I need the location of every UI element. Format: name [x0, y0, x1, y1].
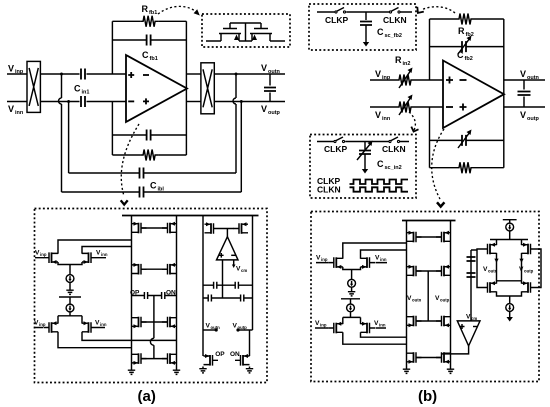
- wire left PMOS top riser: [496, 240, 498, 246]
- svg-text:fb1: fb1: [150, 56, 158, 62]
- wire output Voutn: [504, 79, 545, 81]
- wire chopper to Cin1 top: [41, 73, 80, 75]
- op-amp A1 plus top: [128, 72, 134, 78]
- capacitor Ccm4: [241, 295, 244, 302]
- svg-text:fb1: fb1: [149, 10, 157, 16]
- svg-text:outn: outn: [527, 75, 540, 81]
- resistor Rfb2: [456, 14, 474, 25]
- wire feedback box left vertical lower: [111, 102, 113, 156]
- svg-text:CLKN: CLKN: [383, 15, 407, 25]
- wire caps line2: [203, 297, 253, 299]
- pseudo-resistor transistor M2: [250, 23, 272, 41]
- svg-text:(b): (b): [418, 388, 437, 405]
- arrowhead into in2 box: [411, 127, 418, 132]
- transistor M6a col-right row1: [162, 222, 177, 234]
- transistor M14a right-sec right PMOS: [234, 222, 249, 234]
- wire I4b to ground: [509, 311, 511, 314]
- transistor M5b col-left row1: [407, 231, 422, 243]
- pseudo-resistor gate link: [230, 23, 261, 41]
- op-amp A1: [126, 55, 187, 122]
- svg-text:(a): (a): [138, 388, 156, 405]
- transistor M7b col-left row2: [407, 265, 422, 277]
- op-amp Vcm a (points up): [217, 237, 239, 260]
- wire right section left vertical: [202, 216, 204, 357]
- transistor M14b buffer PMOS right: [522, 243, 537, 255]
- wire row4 gate link: [141, 358, 168, 360]
- dotted curve opamp to bottom box a: [121, 124, 139, 196]
- svg-text:outn: outn: [488, 269, 498, 274]
- wire cap to ground: [365, 25, 367, 39]
- svg-text:V: V: [375, 69, 381, 79]
- Vcm b plus: [460, 324, 465, 329]
- wire pair2 right drain to column: [82, 332, 177, 341]
- wire pair2 left drain to column: [58, 332, 132, 348]
- capacitor Ccm1: [214, 282, 217, 289]
- wire output Voutp: [504, 106, 545, 108]
- svg-text:outn: outn: [412, 298, 422, 303]
- svg-text:V: V: [8, 104, 14, 114]
- wire opamp output to chopper top: [186, 73, 200, 75]
- wire chopper2 to Voutn: [215, 73, 286, 75]
- pseudo-resistor bottom wire: [206, 40, 285, 42]
- ground column right: [173, 368, 180, 374]
- current source I3b: [506, 223, 514, 231]
- wire lower fb varcap branch: [430, 139, 504, 141]
- wire pair2 right drain to column b: [361, 332, 407, 337]
- arrowhead into box b: [437, 202, 444, 206]
- current source I1b: [348, 279, 356, 287]
- transistor M8b col-right row2: [436, 265, 451, 277]
- wire pair1 left drain to column b: [343, 243, 407, 259]
- wire chopper to Cin1 bottom: [41, 101, 80, 103]
- ground column left b: [403, 367, 410, 373]
- svg-text:sc_fb2: sc_fb2: [385, 33, 402, 39]
- wire pair1 tail: [58, 262, 82, 275]
- wire top feedback capacitor branch: [112, 39, 186, 41]
- op-amp A2 minus bottom: [446, 106, 453, 108]
- transistor M10b col-right row3: [436, 316, 451, 328]
- wire right PMOS top riser: [521, 240, 523, 246]
- svg-text:outp: outp: [527, 116, 540, 122]
- transistor M10a col-right row3: [162, 317, 177, 329]
- transistor M1a diff pair1 left: [44, 252, 59, 264]
- svg-text:fb2: fb2: [465, 56, 473, 62]
- op-amp A2 minus top: [460, 79, 467, 81]
- wire bias bar b: [341, 299, 360, 304]
- transistor M15b buffer NMOS left: [482, 281, 497, 293]
- svg-text:outp: outp: [440, 298, 450, 303]
- wire lower fb resistor branch: [430, 167, 504, 169]
- wire I2a to pair2: [69, 312, 71, 316]
- transistor M5a col-left row1: [132, 222, 147, 234]
- wire row1 gate link: [141, 227, 168, 229]
- svg-text:C: C: [150, 181, 157, 191]
- wire feedback tap from bottom output: [240, 102, 242, 193]
- wire feedback box right vertical: [185, 21, 187, 155]
- dotted curve opamp b to bottom box b: [432, 129, 444, 199]
- op-amp A1 plus bottom: [143, 98, 149, 104]
- wire pair1 right drain to column: [82, 247, 132, 254]
- transistor M16a bottom NMOS right: [235, 354, 250, 366]
- wire pair1 tail b: [343, 267, 361, 280]
- ground column right b: [447, 367, 454, 373]
- wire pair2 source bar: [58, 316, 82, 324]
- wire gate leads pair2 b: [315, 327, 386, 329]
- svg-text:R: R: [458, 26, 465, 36]
- arrowhead into fb box: [417, 7, 424, 13]
- chopper CH1: [27, 61, 40, 112]
- ground bottom NMOS right: [246, 367, 253, 373]
- op-amp A1 minus top: [143, 74, 149, 76]
- wire buffer bottom join: [497, 291, 522, 303]
- svg-text:V: V: [520, 110, 526, 120]
- wire I3b down: [509, 231, 511, 240]
- wire I1a to ground: [69, 282, 71, 288]
- wire pair2 source bar b: [343, 317, 361, 324]
- wire lower feedback resistor branch: [112, 154, 186, 156]
- capacitor load CL2: [518, 92, 531, 96]
- wire column right vertical b: [450, 221, 452, 368]
- transistor M7a col-left row2: [132, 263, 147, 275]
- wire Vcm b output: [442, 346, 469, 354]
- svg-text:V: V: [375, 110, 381, 120]
- wire I2b to pair2 b: [350, 312, 352, 318]
- transistor M3a diff pair2 left: [44, 321, 59, 333]
- ground bottom NMOS left: [199, 367, 206, 373]
- wire bias bar: [59, 297, 81, 304]
- op-amp A2 plus bottom: [460, 104, 467, 111]
- dotted arrow Vinn to Csc_in2 box: [409, 112, 415, 130]
- wire lower feedback capacitor branch: [112, 134, 186, 136]
- wire I1b to ground: [351, 287, 353, 289]
- transistor M8a col-right row2: [162, 263, 177, 275]
- capacitor Cfb1b: [147, 130, 151, 141]
- wire feedback tap from top output with hop: [233, 74, 236, 173]
- wire Vinp to opamp: [370, 79, 443, 81]
- wire caps line1: [203, 284, 253, 286]
- waveform CLKN: [350, 187, 409, 191]
- ground I1b: [348, 290, 355, 296]
- svg-text:V: V: [520, 69, 526, 79]
- pseudo-resistor M2 arrow: [252, 35, 257, 41]
- transistor M4b diff pair2 right: [361, 322, 376, 334]
- capacitor Cfb1: [147, 35, 151, 46]
- wire Cin1 to opamp bottom: [87, 101, 127, 103]
- svg-text:inn: inn: [15, 110, 24, 116]
- capacitor Ccmfb1: [144, 292, 147, 299]
- wire Vcm sense stub: [222, 260, 224, 298]
- transistor M6b col-right row1: [436, 231, 451, 243]
- svg-text:V: V: [8, 64, 14, 74]
- arrow on Cfb2b: [458, 132, 470, 148]
- wire left output node riser: [496, 253, 498, 284]
- wire Vinn to chopper: [7, 101, 27, 103]
- wire fb2 box right vertical: [503, 19, 505, 168]
- switch CLKP in2: [334, 137, 345, 143]
- dashed border box a: [35, 209, 268, 383]
- arrowhead into box a: [121, 200, 128, 204]
- current source I1a: [66, 275, 74, 283]
- wire top feedback resistor branch: [112, 20, 186, 22]
- wire row3 gate link: [141, 321, 168, 323]
- svg-text:inp: inp: [40, 252, 47, 257]
- svg-text:V: V: [261, 104, 267, 114]
- wire row3 gate link b: [416, 320, 442, 322]
- svg-text:inn: inn: [382, 116, 391, 122]
- ground I1a: [66, 288, 73, 294]
- wire caps row: [132, 295, 177, 297]
- svg-text:C: C: [457, 50, 464, 60]
- pseudo-resistor transistor M1: [219, 23, 241, 41]
- arrow bias right: [519, 259, 523, 263]
- svg-text:OP: OP: [215, 351, 225, 358]
- wire Cibl inner line: [69, 172, 236, 174]
- capacitor load CL1: [264, 88, 276, 92]
- capacitor Ccm2: [235, 282, 238, 289]
- transistor M2a diff pair1 right: [82, 252, 97, 264]
- wire Vcm input arrow: [233, 260, 235, 265]
- ground column left: [128, 368, 135, 374]
- transistor M11a col-left row4: [132, 353, 147, 365]
- wire row2 gate link b: [416, 270, 442, 272]
- arrow on Cfb2: [458, 38, 470, 54]
- current source I2b: [347, 304, 355, 312]
- wire load cap vertical: [269, 74, 271, 102]
- wire Vinn to opamp: [370, 106, 443, 108]
- wire pair2 left drain to column b: [343, 332, 407, 344]
- wire buffer outer loop right: [536, 249, 541, 288]
- wire feedback tap from bottom input: [68, 102, 70, 174]
- resistor Rfb1b: [140, 150, 158, 161]
- chopper CH2: [201, 63, 214, 114]
- svg-text:ON: ON: [230, 351, 240, 358]
- variable resistor Rin2 bottom: [396, 102, 414, 113]
- wire gate lead Vinp: [35, 257, 106, 259]
- wire cap stem: [365, 12, 367, 20]
- wire fb2 box left vertical upper: [429, 19, 431, 80]
- capacitor Csense1: [467, 257, 476, 261]
- svg-text:CLKN: CLKN: [317, 185, 341, 195]
- wire pair1 left drain to column: [58, 240, 132, 254]
- ground arrow buffer: [507, 314, 513, 322]
- svg-text:C: C: [142, 50, 149, 60]
- capacitor Cibl inner: [140, 168, 144, 179]
- svg-text:R: R: [142, 4, 149, 14]
- wire gate leads pair1 b: [316, 262, 387, 264]
- dotted arrow Rfb2 to box: [421, 7, 455, 13]
- wire chopper2 to Voutp: [215, 101, 286, 103]
- svg-text:sc_in2: sc_in2: [385, 165, 402, 171]
- svg-text:inp: inp: [39, 322, 46, 327]
- wire right NMOS drain riser: [249, 330, 251, 356]
- svg-text:inn: inn: [101, 252, 108, 257]
- dotted arrow Rfb1 to pseudoresistor box: [158, 6, 198, 14]
- node junction bottom output: [240, 100, 243, 103]
- wire opamp output to chopper bottom: [186, 101, 200, 103]
- capacitor Ccm3: [208, 295, 211, 302]
- svg-text:inn: inn: [380, 257, 387, 262]
- svg-text:R: R: [395, 55, 402, 65]
- svg-text:C: C: [377, 27, 384, 37]
- waveform CLKP: [350, 180, 409, 185]
- transistor M9a col-left row3: [132, 317, 147, 329]
- wire buffer outer loop left: [477, 249, 482, 288]
- wire row1 gate link b: [416, 236, 442, 238]
- wire fb2 box left vertical lower: [429, 107, 431, 168]
- wire row4 gate link b: [416, 357, 442, 359]
- op-amp A2: [443, 61, 504, 129]
- current source I2a: [66, 304, 74, 312]
- node junction top input: [60, 73, 63, 76]
- svg-text:outp: outp: [268, 110, 281, 116]
- arrow on Csc_in2: [357, 143, 371, 160]
- svg-text:ibl: ibl: [158, 187, 165, 193]
- wire right section right vertical: [252, 216, 254, 331]
- capacitor Csc_fb2: [360, 22, 372, 26]
- ground arrow in2: [362, 166, 368, 174]
- arrow on Rin2 top: [399, 70, 411, 88]
- svg-text:V: V: [261, 63, 267, 73]
- wire Cfb2 branch: [430, 46, 504, 48]
- op-amp Vcm b: [457, 321, 480, 346]
- wire varcap to ground: [364, 154, 366, 166]
- dashed box Csc_in2: [310, 135, 416, 199]
- svg-text:C: C: [74, 84, 81, 94]
- transistor M13b buffer PMOS left: [482, 243, 497, 255]
- wire switch line in2: [317, 141, 409, 143]
- wire output stage top tee: [503, 220, 517, 223]
- wire varcap stem: [364, 142, 366, 150]
- svg-text:inn: inn: [379, 323, 386, 328]
- arrow on Rin2 bottom: [399, 97, 411, 115]
- arrow bias left: [494, 259, 498, 263]
- capacitor Ccmfb2: [162, 292, 165, 299]
- switch CLKP fb: [335, 8, 346, 14]
- switch CLKN fb: [389, 8, 400, 14]
- wire feedback tap from top input with hop over bottom wire: [59, 74, 62, 192]
- wire feedback box left vertical upper: [111, 21, 113, 74]
- wire Vinp to chopper: [7, 73, 27, 75]
- variable capacitor Cfb2b: [462, 135, 466, 146]
- transistor M9b col-left row3: [407, 316, 422, 328]
- transistor M4a diff pair2 right: [82, 321, 97, 333]
- wire center bias vertical b: [427, 271, 429, 321]
- supply rail a: [122, 215, 259, 217]
- wire column left vertical: [131, 216, 133, 369]
- wire load cap b: [523, 80, 525, 107]
- wire Cibl outer line: [62, 191, 242, 193]
- variable capacitor Cfb2: [462, 41, 466, 52]
- resistor Rfb1: [140, 16, 158, 27]
- transistor M1b diff pair1 left: [328, 257, 343, 269]
- wire switch line: [317, 11, 412, 13]
- Vcm b minus: [473, 326, 478, 328]
- svg-text:in2: in2: [403, 61, 411, 67]
- transistor M3b diff pair2 left: [328, 322, 343, 334]
- svg-text:C: C: [377, 159, 384, 169]
- wire buffer mid bar: [497, 280, 522, 282]
- wire cmfb gate line: [219, 229, 234, 238]
- svg-text:in1: in1: [82, 90, 90, 96]
- transistor M15a bottom NMOS left: [204, 354, 219, 366]
- wire caps center vertical: [150, 296, 154, 359]
- capacitor Cibl outer: [140, 187, 144, 198]
- svg-text:inp: inp: [320, 323, 327, 328]
- svg-text:CLKN: CLKN: [382, 144, 406, 154]
- capacitor Csense2: [467, 273, 476, 277]
- svg-text:CLKP: CLKP: [325, 15, 348, 25]
- svg-text:inn: inn: [100, 322, 107, 327]
- transistor M13a right-sec left PMOS: [205, 222, 220, 234]
- wire Voutp stub: [238, 329, 253, 331]
- node junction top output: [235, 73, 238, 76]
- node junction bottom input: [67, 100, 70, 103]
- wire Cin1 to opamp top: [87, 73, 127, 75]
- wire output stage top line: [490, 239, 528, 241]
- resistor Rfb2b: [456, 162, 474, 173]
- wire gate leads pair2: [34, 327, 105, 329]
- capacitor Cin1 top: [81, 69, 85, 80]
- wire row2 gate link: [141, 268, 168, 270]
- wire right output node riser: [521, 253, 523, 284]
- arrowhead to pseudoresistor box: [194, 9, 200, 15]
- transistor M2b diff pair1 right: [361, 257, 376, 269]
- pseudo-resistor M1 arrow: [234, 35, 239, 41]
- ground arrow fb: [363, 39, 369, 47]
- capacitor Cin1 bottom: [81, 96, 85, 107]
- svg-text:CLKP: CLKP: [324, 144, 347, 154]
- svg-text:outp: outp: [524, 269, 534, 274]
- transistor M12a col-right row4: [162, 353, 177, 365]
- svg-text:inp: inp: [321, 257, 328, 262]
- op-amp A2 plus top: [446, 77, 453, 84]
- svg-text:cm: cm: [241, 268, 247, 273]
- variable capacitor Csc_in2: [359, 151, 371, 155]
- wire pair1 right drain to column b: [361, 250, 407, 259]
- variable resistor Rin2 top: [396, 75, 414, 86]
- wire sense caps vertical: [471, 250, 477, 321]
- dashed border box b: [311, 212, 539, 382]
- wire Voutn stub: [203, 329, 216, 331]
- current source I4b: [506, 304, 514, 312]
- transistor M11b col-left row4: [407, 352, 422, 364]
- wire Rfb2 branch: [430, 18, 504, 20]
- Vcm a minus: [231, 254, 236, 256]
- wire column left vertical b: [406, 221, 408, 368]
- Vcm a plus: [219, 253, 224, 258]
- switch CLKN in2: [389, 137, 400, 143]
- transistor M12b col-right row4: [436, 352, 451, 364]
- dashed box pseudo-resistor: [202, 14, 290, 47]
- op-amp A1 minus bottom: [128, 100, 134, 102]
- supply rail b: [402, 220, 456, 222]
- dashed box Csc_fb2: [309, 4, 416, 50]
- wire column right vertical: [176, 216, 178, 369]
- transistor M16b buffer NMOS right: [522, 281, 537, 293]
